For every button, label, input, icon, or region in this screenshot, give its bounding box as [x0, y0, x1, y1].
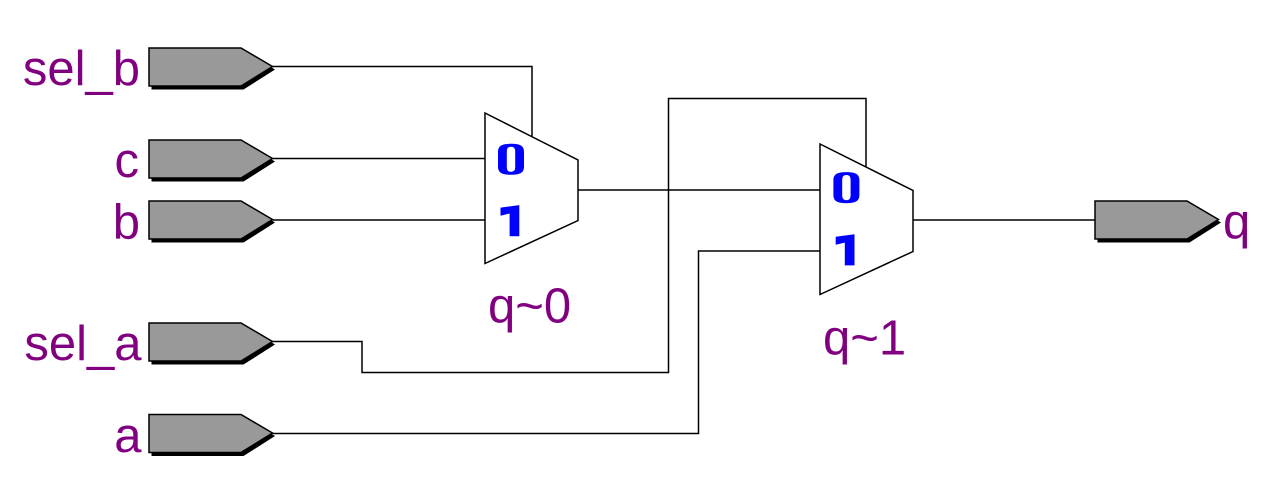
- wire sel_b to mux q~0 select: [273, 67, 533, 138]
- mux q~0: [485, 113, 578, 264]
- input pin sel_b: [149, 48, 275, 90]
- wire c to mux q~0 input 0: [273, 158, 486, 160]
- svg-text:q~1: q~1: [823, 312, 906, 366]
- svg-text:sel_b: sel_b: [23, 42, 140, 96]
- input pin a: [149, 415, 275, 457]
- svg-text:a: a: [114, 409, 142, 463]
- wire b to mux q~0 input 1: [273, 219, 486, 221]
- svg-text:b: b: [113, 196, 140, 250]
- input pin sel_a: [149, 323, 275, 365]
- svg-text:c: c: [115, 134, 140, 188]
- mux q~0 port label 1: [501, 205, 520, 236]
- mux q~0 port label 0: [498, 144, 524, 175]
- input pin b: [149, 201, 275, 243]
- input pin c: [149, 140, 275, 182]
- mux q~1 port label 1: [836, 234, 855, 265]
- wire sel_a to mux q~1 select: [273, 99, 867, 373]
- svg-text:sel_a: sel_a: [24, 317, 142, 371]
- svg-text:q: q: [1223, 196, 1250, 250]
- wire a to mux q~1 input 1: [273, 251, 821, 434]
- svg-text:q~0: q~0: [488, 280, 571, 334]
- wire mux q~1 output to pin q: [913, 219, 1095, 221]
- mux q~1: [820, 144, 913, 295]
- output pin q: [1095, 201, 1221, 243]
- wire mux q~0 output to mux q~1 input 0: [578, 189, 820, 191]
- mux q~1 port label 0: [833, 172, 859, 203]
